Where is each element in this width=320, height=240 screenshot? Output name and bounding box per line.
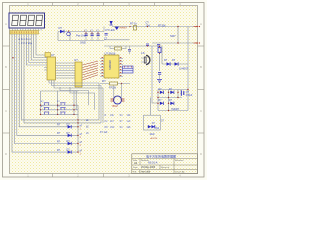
IC U3 <box>100 52 123 78</box>
sheet background <box>0 0 207 180</box>
svg-text:1N4007: 1N4007 <box>179 67 189 71</box>
switch S5 <box>44 112 49 114</box>
pin arrow P1 <box>194 26 201 28</box>
pin arrow P2 <box>194 42 201 44</box>
switch S3 <box>41 106 49 110</box>
LED row 4 with diode D4 <box>57 149 83 156</box>
svg-text:IN4007: IN4007 <box>120 28 128 30</box>
sheet outer border <box>3 3 205 178</box>
svg-text:1N4: 1N4 <box>110 126 115 129</box>
LED row 1 with diode D1 <box>57 123 83 130</box>
svg-text:C: C <box>200 109 202 113</box>
LED row 3 with diode D3 <box>57 140 83 147</box>
resistor R3 right <box>158 46 161 56</box>
svg-text:AC220: AC220 <box>151 137 158 140</box>
junction dots key matrix <box>40 105 79 124</box>
diode D3 <box>115 27 128 31</box>
svg-text:SM1628: SM1628 <box>108 60 112 70</box>
switch S2 <box>57 101 66 105</box>
svg-text:R?10k: R?10k <box>158 24 166 28</box>
svg-text:1uF: 1uF <box>127 120 132 123</box>
svg-text:A: A <box>200 22 202 26</box>
diode D2 top right <box>106 21 115 32</box>
wire bus from J1 to LED rows <box>12 34 78 152</box>
seven-segment display DS1 <box>9 13 45 28</box>
net label AC <box>151 137 158 140</box>
diode D8 <box>159 100 164 105</box>
resistor pack RP1 <box>12 53 50 59</box>
svg-text:Pwr.Gnd: Pwr.Gnd <box>76 34 87 38</box>
svg-text:4k7: 4k7 <box>110 120 115 123</box>
net label top right of LEDs <box>86 120 108 135</box>
svg-text:E:\wnl.ddb: E:\wnl.ddb <box>139 170 151 173</box>
net labels under J1 <box>19 37 33 45</box>
svg-text:U?: U? <box>51 53 55 57</box>
ground <box>157 80 162 83</box>
svg-text:GND: GND <box>80 41 86 45</box>
capacitor C7 <box>158 73 161 80</box>
capacitor C4 left edge <box>104 34 108 41</box>
wire right mid <box>152 27 188 104</box>
capacitor C2 <box>90 30 94 41</box>
power rail top left <box>58 32 104 41</box>
svg-text:U?: U? <box>74 58 78 62</box>
sheet inner border <box>10 6 198 174</box>
svg-text:R?: R? <box>102 79 106 83</box>
resistor R above U3 <box>110 46 126 50</box>
capacitor C5 <box>146 22 151 47</box>
label bridge <box>172 108 180 111</box>
svg-text:Revision: Revision <box>175 160 184 162</box>
switch S1 <box>41 101 49 105</box>
svg-text:1 2 3 4 d p: 1 2 3 4 d p <box>19 41 33 45</box>
capacitor C6 <box>157 45 160 49</box>
title block <box>132 154 198 174</box>
svg-text:BUZ: BUZ <box>113 104 119 108</box>
switch S4 <box>57 106 66 110</box>
svg-text:D? LED: D? LED <box>106 28 115 32</box>
capacitor above U3 <box>128 46 131 54</box>
diode D5 <box>172 59 178 66</box>
capacitor C8 electrolytic <box>181 90 193 97</box>
svg-text:N0.01-A: N0.01-A <box>148 161 158 165</box>
LED row 2 with diode D2 <box>57 132 83 139</box>
svg-text:D: D <box>5 152 7 156</box>
IC U1 <box>44 53 56 80</box>
wire top rail right <box>104 27 197 47</box>
resistor R2 on rail <box>129 22 137 31</box>
svg-text:SW?: SW? <box>170 34 176 38</box>
crystal network Y1 <box>123 66 134 73</box>
diode D9 <box>169 100 174 105</box>
svg-text:K? 1uF: K? 1uF <box>100 132 108 134</box>
svg-text:Drawn By: Drawn By <box>175 170 185 173</box>
wire bus from J1 to U1 <box>26 34 45 65</box>
svg-text:Sheet of: Sheet of <box>161 166 170 169</box>
label 1N4007 <box>179 67 189 71</box>
wires U1 to U2 <box>56 63 76 78</box>
svg-text:电子万年历电路原理图: 电子万年历电路原理图 <box>146 153 176 158</box>
regulator D11 loop <box>144 115 165 136</box>
svg-text:Date: Date <box>133 166 138 169</box>
connector J1 <box>10 31 39 35</box>
junction dots bridge <box>157 89 188 111</box>
diode D1 <box>59 26 65 33</box>
border zone labels <box>5 2 202 178</box>
svg-text:D?: D? <box>59 26 63 30</box>
svg-text:C: C <box>5 109 7 113</box>
resistor label R10k <box>158 24 179 28</box>
wire power join <box>103 27 105 32</box>
capacitor C1 <box>84 30 88 41</box>
switch S6 <box>60 112 65 114</box>
net label SW <box>170 34 179 44</box>
svg-text:470uF: 470uF <box>186 95 193 97</box>
wire wrap below U1 U2 <box>49 80 103 123</box>
svg-text:A4: A4 <box>134 161 138 165</box>
bridge wires <box>151 90 188 116</box>
svg-text:D: D <box>200 152 202 156</box>
red pin fan U2 to U3 <box>83 61 99 80</box>
capacitor C3 <box>97 32 100 41</box>
svg-text:B: B <box>200 65 202 69</box>
svg-text:IN4007: IN4007 <box>172 108 180 111</box>
diode D4 <box>164 59 170 66</box>
speaker LS1 <box>141 51 150 65</box>
diode D7 <box>169 89 174 94</box>
diode D6 <box>159 89 164 94</box>
border zone ticks <box>3 3 205 178</box>
svg-text:R?10k: R?10k <box>109 87 117 90</box>
key matrix wires <box>41 91 79 152</box>
svg-text:26-May-2006: 26-May-2006 <box>141 166 156 169</box>
title text <box>133 153 185 173</box>
buzzer B1 <box>111 96 125 108</box>
svg-text:R: R <box>105 114 107 117</box>
svg-text:R? 1k: R? 1k <box>130 22 137 26</box>
display pins <box>13 28 42 31</box>
net label PWR <box>76 34 87 45</box>
svg-text:B: B <box>5 65 7 69</box>
svg-text:4k8: 4k8 <box>127 126 132 129</box>
IC U2 <box>74 58 82 87</box>
part list text <box>105 114 132 129</box>
wire bus from J1 to key rails <box>22 34 101 123</box>
svg-text:10uF: 10uF <box>150 134 156 136</box>
transistor Q1 <box>67 30 71 36</box>
capacitor labels C1 C2 C3 <box>84 30 100 32</box>
svg-text:LS: LS <box>141 51 145 55</box>
resistor R below U3 <box>100 79 130 98</box>
svg-text:A: A <box>5 22 7 26</box>
